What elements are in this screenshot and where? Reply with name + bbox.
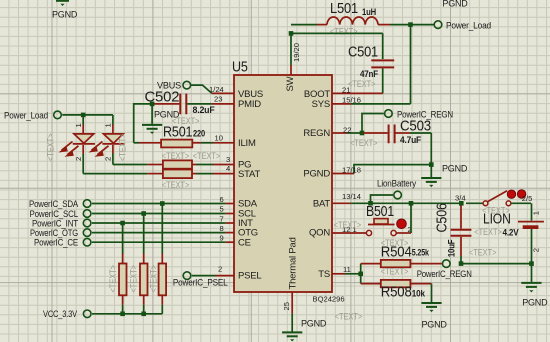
svg-text:CE: CE [238, 237, 251, 248]
svg-text:B501: B501 [366, 203, 394, 220]
pin PGND(17/18) wire [332, 165, 431, 175]
wire TS divider [360, 264, 362, 284]
svg-text:TS: TS [318, 269, 330, 280]
svg-text:21: 21 [342, 85, 350, 94]
svg-text:<TEXT>: <TEXT> [149, 265, 159, 293]
svg-text:PGND: PGND [522, 298, 548, 308]
pin SYS wire [332, 25, 411, 105]
svg-text:<TEXT>: <TEXT> [474, 227, 502, 237]
terminal PowerIC_OTG [30, 228, 91, 238]
svg-text:REGN: REGN [303, 128, 330, 139]
svg-text:4: 4 [226, 164, 230, 173]
terminal PowerIC_PSEL [173, 272, 228, 288]
svg-text:PGND: PGND [154, 110, 180, 120]
svg-text:10uF: 10uF [447, 239, 457, 257]
wire C502 to ground [151, 104, 153, 124]
svg-text:C506: C506 [434, 203, 451, 232]
svg-text:8: 8 [220, 224, 224, 233]
LED 2 (Power_Load indicator) [88, 115, 124, 165]
svg-text:<TEXT>: <TEXT> [335, 311, 363, 321]
svg-text:QON: QON [309, 228, 330, 239]
svg-text:BAT: BAT [313, 198, 331, 209]
battery LION [469, 203, 544, 263]
resistor (STAT, unnamed) [147, 164, 234, 178]
svg-text:PowerIC_REGN: PowerIC_REGN [417, 269, 472, 279]
node junction C506 bottom [459, 261, 464, 266]
pushbutton B501 [353, 203, 412, 236]
svg-text:47nF: 47nF [360, 69, 379, 79]
wire LED2 to PG resistor [113, 164, 147, 166]
resistor pullup SCL [140, 254, 148, 314]
svg-text:5: 5 [220, 205, 224, 214]
svg-text:1: 1 [104, 123, 113, 127]
svg-text:PowerIC_CE: PowerIC_CE [34, 238, 78, 248]
node junction BAT-button [409, 201, 414, 206]
pin BAT wire [332, 192, 461, 204]
terminal PowerIC_INT [32, 218, 91, 228]
wire to ground [430, 165, 432, 177]
node junction SCL pullup [141, 211, 146, 216]
wire SCL pullup vertical [143, 214, 145, 254]
svg-text:3: 3 [226, 155, 230, 164]
wire INT [92, 214, 234, 223]
svg-text:220: 220 [193, 128, 205, 138]
svg-text:4.7uF: 4.7uF [400, 135, 422, 145]
svg-text:BQ24296: BQ24296 [313, 294, 345, 303]
wire SDA pullup vertical [161, 204, 163, 254]
capacitor C501 [348, 44, 394, 94]
svg-text:<TEXT>: <TEXT> [381, 238, 409, 248]
svg-text:C503: C503 [400, 118, 431, 135]
svg-text:VCC_3.3V: VCC_3.3V [43, 309, 77, 319]
svg-text:STAT: STAT [238, 169, 260, 180]
node junction TS [358, 272, 363, 277]
terminal PowerIC_REGN (top) [385, 109, 453, 119]
svg-text:SYS: SYS [312, 99, 330, 110]
terminal LionBattery [377, 179, 417, 199]
svg-text:7: 7 [220, 214, 224, 223]
node junction C502 left [150, 102, 155, 107]
inductor L501 [291, 0, 434, 36]
capacitor C506 [434, 203, 472, 263]
IC U5 body [232, 59, 345, 304]
resistor R508 [361, 280, 432, 302]
svg-text:3/4: 3/4 [455, 193, 466, 202]
IC U5 left pin names [238, 89, 263, 282]
svg-text:15/16: 15/16 [342, 95, 361, 104]
svg-text:2: 2 [532, 248, 541, 252]
svg-text:1uH: 1uH [362, 7, 376, 17]
node junction LED1 top [81, 113, 86, 118]
svg-text:C501: C501 [348, 44, 378, 61]
wire SW node [291, 33, 383, 65]
ground PGND under battery [521, 283, 548, 308]
terminal Power_Load (top right) [434, 20, 491, 30]
resistor R501 [134, 124, 234, 148]
LED 1 (Power_Load indicator) [58, 115, 95, 174]
wire SCL [92, 205, 234, 214]
wire C502 left to R501 [134, 104, 152, 143]
svg-text:LionBattery: LionBattery [377, 179, 417, 189]
terminal PowerIC_CE [34, 238, 91, 248]
wire battery bottom rail [461, 263, 532, 265]
capacitor C502 [145, 89, 235, 127]
pin 25 thermal wire [282, 292, 292, 332]
pin REGN wire [332, 125, 378, 148]
svg-text:C502: C502 [145, 89, 180, 106]
svg-text:2: 2 [218, 264, 222, 273]
svg-text:2: 2 [104, 157, 113, 161]
wire VCC rail [92, 313, 162, 315]
svg-text:22: 22 [343, 125, 351, 134]
svg-text:19/20: 19/20 [292, 43, 301, 62]
wire LED1 to STAT resistor [83, 173, 147, 175]
svg-text:10k: 10k [412, 288, 425, 298]
wire VBUS terminal to pin 1/24 [191, 85, 212, 93]
node junction SDA pullup [160, 201, 165, 206]
svg-text:U5: U5 [232, 59, 248, 76]
wire OTG [92, 224, 234, 233]
svg-text:4.2V: 4.2V [503, 227, 519, 237]
ground top-left PGND [52, 1, 78, 20]
node junction VCC-SCL [141, 312, 146, 317]
svg-text:L501: L501 [330, 0, 358, 17]
svg-text:LION: LION [483, 211, 511, 228]
svg-text:<TEXT>: <TEXT> [162, 180, 190, 190]
svg-text:PowerIC_SDA: PowerIC_SDA [29, 199, 78, 209]
svg-text:Power_Load: Power_Load [446, 20, 491, 30]
terminal VCC_3.3V [43, 309, 91, 319]
svg-text:9: 9 [220, 234, 224, 243]
svg-text:17/18: 17/18 [342, 165, 361, 174]
svg-text:<TEXT>: <TEXT> [108, 265, 118, 293]
svg-text:R501: R501 [163, 124, 192, 141]
svg-text:<TEXT>: <TEXT> [330, 26, 358, 36]
svg-text:13/14: 13/14 [342, 192, 361, 201]
resistor R504 [361, 238, 442, 276]
node junction INT pullup [120, 221, 125, 226]
svg-text:PowerIC_INT: PowerIC_INT [32, 218, 79, 228]
svg-text:23: 23 [214, 95, 222, 104]
svg-text:<TEXT>: <TEXT> [469, 248, 497, 258]
svg-text:PGND: PGND [52, 10, 78, 20]
svg-text:PGND: PGND [303, 169, 330, 180]
svg-text:PGND: PGND [442, 0, 468, 8]
svg-text:25: 25 [282, 302, 291, 310]
svg-text:PowerIC_SCL: PowerIC_SCL [30, 209, 79, 219]
terminal Power_Load (left) [4, 110, 61, 120]
node junction VCC-INT [120, 312, 125, 317]
wire REGN to terminal [362, 114, 384, 134]
svg-text:<TEXT>: <TEXT> [118, 134, 128, 162]
node junction REGN [360, 131, 365, 136]
resistor pullup INT [119, 254, 127, 314]
svg-text:<TEXT>: <TEXT> [46, 134, 56, 162]
svg-text:PGND: PGND [422, 319, 448, 329]
svg-text:VBUS: VBUS [238, 89, 263, 100]
pin TS wire [332, 265, 361, 274]
capacitor C503 [363, 118, 431, 165]
wire LionBattery to BAT [371, 195, 394, 203]
resistor pullup SDA [159, 254, 167, 314]
svg-text:<TEXT>: <TEXT> [334, 220, 362, 230]
wire SDA [92, 195, 234, 204]
svg-text:SW: SW [285, 76, 296, 91]
svg-text:BOOT: BOOT [304, 89, 331, 100]
node junction BAT-Lion [368, 201, 373, 206]
node junction SW [289, 31, 294, 36]
svg-text:1/24: 1/24 [209, 85, 224, 94]
svg-text:VBUS: VBUS [157, 81, 181, 91]
svg-text:PowerIC_OTG: PowerIC_OTG [30, 228, 78, 238]
pin QON wire [332, 220, 366, 234]
node junction PGND [429, 162, 434, 167]
svg-text:11: 11 [343, 265, 351, 274]
svg-text:PSEL: PSEL [238, 271, 262, 282]
svg-text:1: 1 [532, 211, 541, 215]
IC U5 right pin names [303, 89, 330, 280]
svg-text:ILIM: ILIM [238, 138, 256, 149]
wire CE [92, 234, 234, 243]
ground PGND right of IC [421, 164, 468, 188]
wire Power_Load to LEDs [62, 114, 113, 116]
pin BOOT stub [332, 85, 383, 94]
wire button to BAT node [396, 203, 411, 233]
node junction BAT-C506 [459, 201, 464, 206]
svg-text:Power_Load: Power_Load [4, 110, 48, 120]
svg-text:<TEXT>: <TEXT> [348, 79, 376, 89]
resistor (PG, unnamed) [147, 155, 234, 169]
pin SW stub [290, 65, 292, 75]
svg-text:6: 6 [220, 195, 224, 204]
svg-text:8.2uF: 8.2uF [193, 105, 216, 115]
ground PGND under IC [282, 318, 327, 341]
terminal VBUS [157, 81, 191, 91]
svg-text:<TEXT>: <TEXT> [381, 266, 409, 276]
svg-text:1: 1 [74, 123, 83, 127]
svg-text:<TEXT>: <TEXT> [162, 151, 190, 161]
svg-text:PowerIC_PSEL: PowerIC_PSEL [173, 278, 228, 288]
wire INT pullup vertical [122, 223, 124, 254]
node junction L501 right [408, 22, 413, 27]
svg-text:2: 2 [74, 157, 83, 161]
svg-text:2/5: 2/5 [522, 194, 533, 203]
svg-text:<TEXT>: <TEXT> [129, 265, 139, 293]
wire PSEL [192, 264, 234, 275]
switch SW to LION [455, 190, 532, 206]
svg-text:PGND: PGND [442, 164, 468, 174]
ground PGND under R508 [421, 303, 447, 329]
svg-text:10: 10 [215, 134, 223, 143]
svg-text:PGND: PGND [301, 318, 327, 328]
svg-text:R508: R508 [381, 284, 412, 301]
svg-text:<TEXT>: <TEXT> [350, 138, 378, 148]
svg-text:<TEXT>: <TEXT> [193, 151, 221, 161]
svg-text:Thermal Pad: Thermal Pad [288, 237, 299, 289]
terminal PowerIC_SDA [29, 199, 91, 209]
svg-text:PMID: PMID [238, 99, 261, 110]
terminal PowerIC_SCL [30, 209, 91, 219]
terminal PowerIC_REGN (R504) [417, 260, 472, 279]
svg-text:5.25k: 5.25k [412, 247, 429, 257]
ground PGND under C502 [142, 110, 180, 135]
